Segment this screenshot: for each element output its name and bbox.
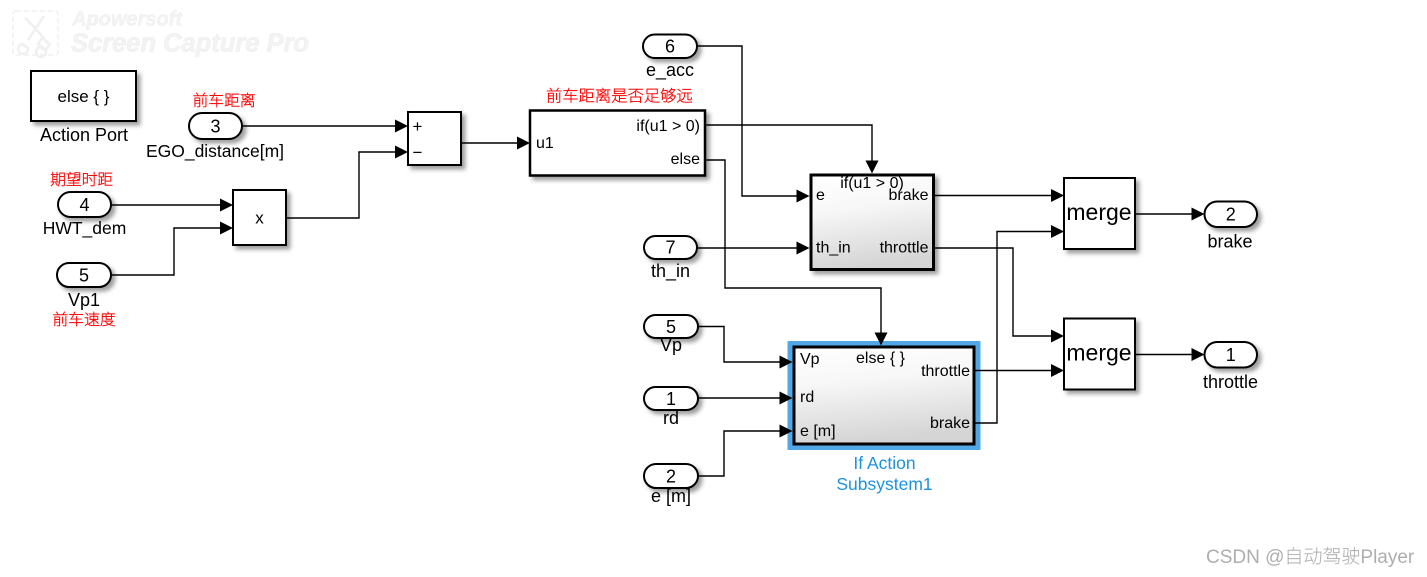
label throttle: [1203, 372, 1258, 392]
wire subsystem throttle to merge2 in1: [935, 248, 1064, 343]
svg-text:Apowersoft: Apowersoft: [71, 9, 183, 31]
inport 3: [189, 113, 242, 139]
svg-text:throttle: throttle: [921, 363, 970, 380]
wire inport Vp to subsystem1 Vp: [698, 327, 793, 369]
svg-text:Vp1: Vp1: [68, 290, 100, 310]
svg-text:−: −: [413, 143, 423, 162]
if block u1: [530, 111, 705, 176]
watermark Apowersoft Screen Capture Pro: [13, 9, 309, 58]
svg-text:if(u1 > 0): if(u1 > 0): [636, 118, 700, 135]
inport 4: [58, 192, 111, 217]
svg-text:e [m]: e [m]: [651, 486, 691, 506]
wire if(u1>0) to subsystem action port: [705, 125, 879, 174]
wire inport e[m] to subsystem1 e[m]: [698, 425, 793, 477]
footer CSDN watermark: [1206, 547, 1415, 568]
wire inport4 to product in1: [111, 199, 233, 212]
wire inport5 to product in2: [111, 222, 233, 276]
svg-text:e_acc: e_acc: [646, 60, 694, 81]
svg-text:+: +: [413, 117, 423, 136]
svg-text:7: 7: [665, 238, 675, 258]
svg-text:Action Port: Action Port: [40, 125, 128, 145]
svg-text:u1: u1: [536, 135, 554, 152]
label e_acc: [646, 60, 694, 81]
svg-text:brake: brake: [1207, 232, 1252, 252]
svg-text:else: else: [671, 151, 700, 168]
svg-text:CSDN @: CSDN @: [1206, 547, 1284, 568]
label e [m]: [651, 486, 691, 506]
wire inport6 to subsystem e: [697, 46, 810, 203]
svg-text:else { }: else { }: [856, 350, 906, 367]
svg-text:5: 5: [79, 266, 89, 286]
svg-text:e [m]: e [m]: [800, 423, 836, 440]
svg-text:throttle: throttle: [1203, 372, 1258, 392]
inport 5 (Vp1): [57, 263, 111, 287]
label EGO_distance[m]: [146, 141, 284, 162]
svg-text:1: 1: [666, 389, 676, 409]
svg-text:else { }: else { }: [58, 87, 110, 106]
merge block 2: [1064, 319, 1135, 390]
svg-text:2: 2: [1226, 205, 1236, 225]
svg-text:4: 4: [79, 195, 89, 215]
svg-text:th_in: th_in: [651, 261, 690, 282]
action port block (else { }): [31, 71, 136, 121]
svg-text:e: e: [816, 187, 825, 204]
outport 2 (brake): [1205, 202, 1258, 228]
svg-text:brake: brake: [888, 187, 928, 204]
product block X: [233, 190, 286, 245]
svg-text:brake: brake: [930, 415, 970, 432]
inport 6 (e_acc): [643, 35, 697, 59]
svg-text:rd: rd: [663, 408, 679, 428]
label HWT_dem: [43, 218, 127, 239]
svg-text:throttle: throttle: [880, 240, 929, 257]
svg-text:5: 5: [666, 317, 676, 337]
if action subsystem1 (else {}) selected: [788, 341, 981, 450]
merge block 1: [1064, 178, 1135, 249]
label 前车速度 (red): [53, 312, 114, 326]
label 前车距离是否足够远 (red): [547, 88, 692, 103]
svg-text:th_in: th_in: [816, 240, 851, 257]
inport 2 (e [m]): [644, 464, 698, 488]
svg-text:x: x: [255, 209, 264, 228]
wire product to sum -: [286, 146, 408, 219]
label 前车距离 (red): [194, 93, 255, 107]
svg-text:If Action: If Action: [853, 453, 915, 473]
inport 1 (rd): [644, 387, 698, 410]
inport 7 (th_in): [644, 236, 697, 259]
label rd: [663, 408, 679, 428]
svg-text:3: 3: [210, 117, 220, 137]
wire merge1 to outport 2: [1135, 208, 1205, 221]
svg-text:Subsystem1: Subsystem1: [836, 474, 932, 494]
wire inport3 to sum +: [242, 120, 408, 133]
wire inport7 to subsystem th_in: [697, 242, 810, 255]
svg-text:Vp: Vp: [660, 335, 682, 355]
wire subsystem brake to merge1 in1: [935, 189, 1064, 202]
svg-text:6: 6: [665, 37, 675, 57]
label brake: [1207, 232, 1252, 252]
label Vp: [660, 335, 682, 355]
label 期望时距 (red): [51, 172, 112, 186]
label th_in: [651, 261, 690, 282]
svg-text:HWT_dem: HWT_dem: [43, 218, 127, 239]
svg-text:Vp: Vp: [800, 351, 820, 368]
svg-text:EGO_distance[m]: EGO_distance[m]: [146, 141, 284, 162]
wire sum to if block u1: [461, 137, 530, 150]
label Vp1: [68, 290, 100, 310]
if action subsystem (if(u1>0)): [811, 175, 934, 270]
wire merge2 to outport 1: [1135, 348, 1205, 361]
label Action Port: [40, 125, 128, 145]
svg-text:merge: merge: [1066, 199, 1131, 225]
svg-text:Player: Player: [1360, 547, 1415, 568]
inport 5 (Vp): [644, 315, 698, 338]
wire subsystem1 brake to merge1 in2: [976, 225, 1065, 423]
label If Action Subsystem1 (blue): [836, 453, 932, 494]
sum block +-: [408, 112, 461, 165]
svg-text:Screen Capture Pro: Screen Capture Pro: [71, 30, 309, 58]
svg-text:merge: merge: [1066, 340, 1131, 366]
svg-text:1: 1: [1226, 345, 1236, 365]
svg-text:2: 2: [666, 467, 676, 487]
wire else to subsystem1 action port: [705, 160, 888, 346]
wire subsystem1 throttle to merge2 in2: [976, 364, 1065, 377]
wire inport rd to subsystem1 rd: [698, 392, 793, 405]
outport 1 (throttle): [1205, 342, 1258, 368]
svg-text:rd: rd: [800, 389, 814, 406]
